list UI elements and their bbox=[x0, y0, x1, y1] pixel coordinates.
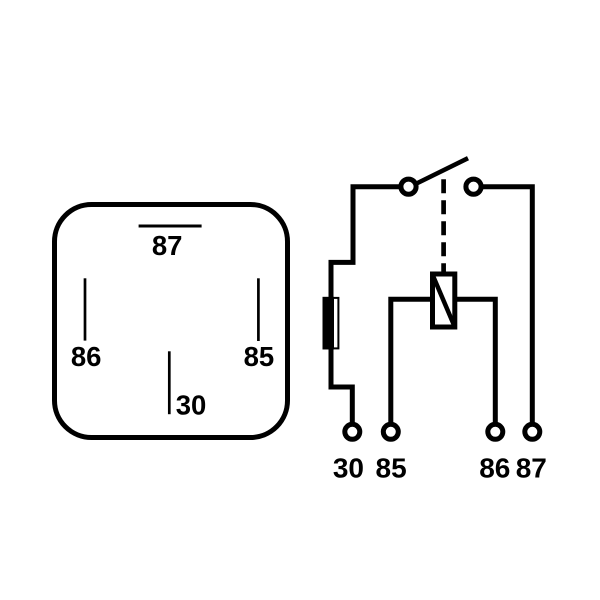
svg-text:30: 30 bbox=[176, 389, 207, 420]
svg-text:85: 85 bbox=[244, 341, 275, 372]
svg-text:87: 87 bbox=[516, 453, 547, 484]
svg-text:85: 85 bbox=[376, 453, 407, 484]
svg-text:87: 87 bbox=[152, 230, 183, 261]
svg-text:86: 86 bbox=[71, 341, 102, 372]
svg-text:86: 86 bbox=[479, 453, 510, 484]
svg-text:30: 30 bbox=[333, 453, 364, 484]
